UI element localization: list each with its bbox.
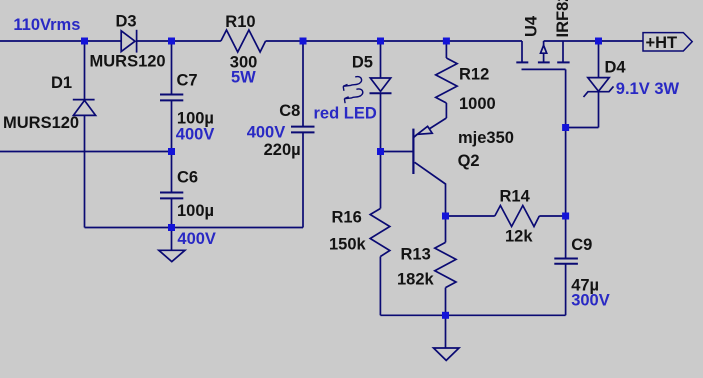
wire top rail left	[0, 40, 121, 42]
svg-text:R16: R16	[332, 209, 362, 227]
svg-text:Q2: Q2	[458, 152, 480, 170]
svg-text:D4: D4	[605, 59, 627, 77]
wire gate to D4	[566, 127, 599, 129]
svg-text:+HT: +HT	[646, 34, 678, 52]
node junction J4	[377, 38, 384, 45]
wire ground1 stub	[171, 228, 173, 251]
wire base	[381, 151, 414, 153]
node junction J6	[595, 38, 602, 45]
wire C8 bottom lead	[302, 133, 304, 228]
wire C6 bottom lead	[171, 199, 173, 228]
wire R13 top lead	[445, 216, 447, 242]
wire R12 top lead	[445, 41, 447, 58]
svg-text:R13: R13	[401, 246, 431, 264]
wire R14 right lead	[539, 215, 565, 217]
svg-text:C9: C9	[571, 236, 592, 254]
node junction J2	[168, 38, 175, 45]
wire gate column	[565, 69, 567, 216]
svg-text:100µ: 100µ	[177, 109, 214, 127]
node junction J5	[443, 38, 450, 45]
node junction J1	[81, 38, 88, 45]
wire D1 top lead	[84, 41, 86, 100]
wire R16 bottom lead	[379, 257, 381, 316]
svg-text:100µ: 100µ	[177, 202, 214, 220]
svg-text:R12: R12	[459, 65, 489, 83]
wire R14 left lead	[446, 215, 495, 217]
capacitor C7	[160, 95, 183, 101]
wire D1 bottom lead	[84, 115, 86, 227]
wire R10 to drain	[266, 40, 522, 42]
svg-text:150k: 150k	[329, 236, 367, 254]
wire mosfet source rail	[544, 40, 643, 42]
svg-text:mje350: mje350	[458, 129, 514, 147]
wire C8 top lead	[302, 41, 304, 126]
wire D4 bottom lead	[598, 92, 600, 128]
node junction J13	[442, 312, 449, 319]
svg-text:U4: U4	[523, 15, 541, 37]
wire bottom rail	[380, 314, 565, 316]
wire R16 top lead	[380, 152, 382, 209]
wire D4 top lead	[598, 41, 600, 78]
node junction J8	[377, 148, 384, 155]
svg-text:D1: D1	[51, 74, 72, 92]
resistor R14	[495, 206, 540, 227]
wire R12 to emitter	[445, 103, 447, 118]
wire C6 top lead	[171, 152, 173, 193]
wire D5 bottom lead	[380, 93, 382, 151]
wire R13 bottom lead	[445, 288, 447, 316]
capacitor C9	[554, 259, 578, 264]
svg-text:red LED: red LED	[314, 104, 377, 122]
diode D1	[73, 100, 96, 116]
node junction J9	[562, 124, 569, 131]
wire C9 bottom lead	[565, 264, 567, 316]
svg-text:1000: 1000	[459, 95, 496, 113]
wire C7 bottom lead	[171, 101, 173, 152]
node junction J10	[168, 224, 175, 231]
node junction J11	[442, 213, 449, 220]
wire AC mid rail	[0, 151, 172, 153]
wire D5 top lead	[380, 41, 382, 78]
svg-text:9.1V 3W: 9.1V 3W	[616, 80, 680, 98]
svg-text:400V: 400V	[177, 230, 216, 248]
svg-text:182k: 182k	[397, 271, 435, 289]
flag +HT	[643, 33, 692, 51]
svg-text:5W: 5W	[231, 68, 256, 86]
resistor R13	[435, 242, 456, 287]
svg-text:IRF820: IRF820	[554, 0, 572, 38]
svg-text:R10: R10	[225, 13, 255, 31]
node junction J3	[300, 38, 307, 45]
transistor Q2	[413, 118, 446, 216]
svg-text:MURS120: MURS120	[3, 114, 79, 132]
svg-text:400V: 400V	[247, 123, 286, 141]
diode D3	[121, 30, 136, 53]
capacitor C8	[291, 127, 315, 133]
svg-text:12k: 12k	[505, 228, 533, 246]
svg-text:MURS120: MURS120	[90, 53, 166, 71]
wire ground2 stub	[445, 315, 447, 348]
mosfet U4	[516, 41, 569, 69]
svg-text:400V: 400V	[176, 126, 215, 144]
svg-text:220µ: 220µ	[264, 141, 301, 159]
zener diode D4	[584, 78, 614, 97]
svg-text:R14: R14	[500, 187, 531, 205]
svg-text:D3: D3	[116, 13, 137, 31]
resistor R16	[370, 209, 390, 257]
wire C7 top lead	[171, 41, 173, 94]
node junction J12	[562, 213, 569, 220]
wire D3 to J2	[137, 40, 221, 42]
svg-text:C7: C7	[177, 71, 198, 89]
svg-text:300V: 300V	[571, 292, 610, 310]
ground (left)	[159, 250, 185, 261]
capacitor C6	[160, 193, 183, 199]
resistor R12	[436, 58, 457, 103]
resistor R10	[221, 30, 266, 52]
wire bottom-left rail	[85, 227, 304, 229]
svg-text:C6: C6	[177, 169, 198, 187]
svg-text:D5: D5	[352, 54, 373, 72]
node junction J7	[168, 148, 175, 155]
wire C9 top lead	[565, 216, 567, 258]
svg-text:C8: C8	[279, 102, 300, 120]
LED D5	[343, 77, 391, 104]
svg-text:110Vrms: 110Vrms	[13, 16, 80, 34]
ground (right)	[434, 348, 460, 360]
